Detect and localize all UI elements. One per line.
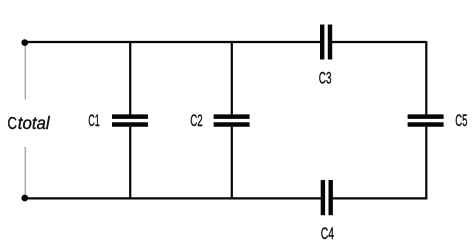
wire: C1 bottom lead (C1 bottom plate to bottom rail): [129, 127, 131, 200]
label Ctotal (equivalent capacitance): [7, 113, 50, 133]
wire: top rail, left segment (top-left terminal to C3 left plate): [25, 41, 321, 43]
capacitor C5 (right branch): [408, 117, 444, 125]
svg-text:C5: C5: [455, 112, 467, 130]
wire: C1 top lead (top rail to C1 top plate): [129, 41, 131, 114]
node: top-left terminal (junction dot): [21, 39, 28, 46]
wire: C2 bottom lead (C2 bottom plate to bottom rail): [231, 127, 233, 200]
capacitor C3 (in top rail): [322, 25, 330, 60]
wire: bottom rail, left segment (bottom-left terminal to C4 left plate): [25, 197, 321, 199]
wire: C2 top lead (top rail to C2 top plate): [231, 41, 233, 114]
svg-text:C2: C2: [190, 112, 202, 130]
node: bottom-left terminal (junction dot): [21, 195, 28, 202]
svg-text:C4: C4: [321, 225, 334, 243]
capacitor C1: [112, 117, 148, 125]
svg-text:total: total: [18, 113, 51, 133]
capacitor C2: [214, 117, 250, 125]
wire: gray measurement lead, lower segment (up to bottom-left terminal): [24, 147, 26, 195]
wire: right branch top lead (top-right corner to C5 top plate): [425, 41, 427, 114]
svg-text:C1: C1: [88, 112, 100, 130]
svg-text:C: C: [7, 113, 17, 133]
wire: top rail, right segment (C3 right plate to top-right corner): [332, 41, 426, 43]
svg-text:C3: C3: [319, 70, 332, 88]
capacitor C4 (in bottom rail): [323, 180, 331, 215]
wire: right branch bottom lead (C5 bottom plate to bottom-right corner): [425, 127, 427, 200]
wire: bottom rail, right segment (C4 right plate to bottom-right corner): [333, 197, 427, 199]
wire: gray measurement lead, upper segment (from top-left terminal down): [24, 46, 26, 100]
